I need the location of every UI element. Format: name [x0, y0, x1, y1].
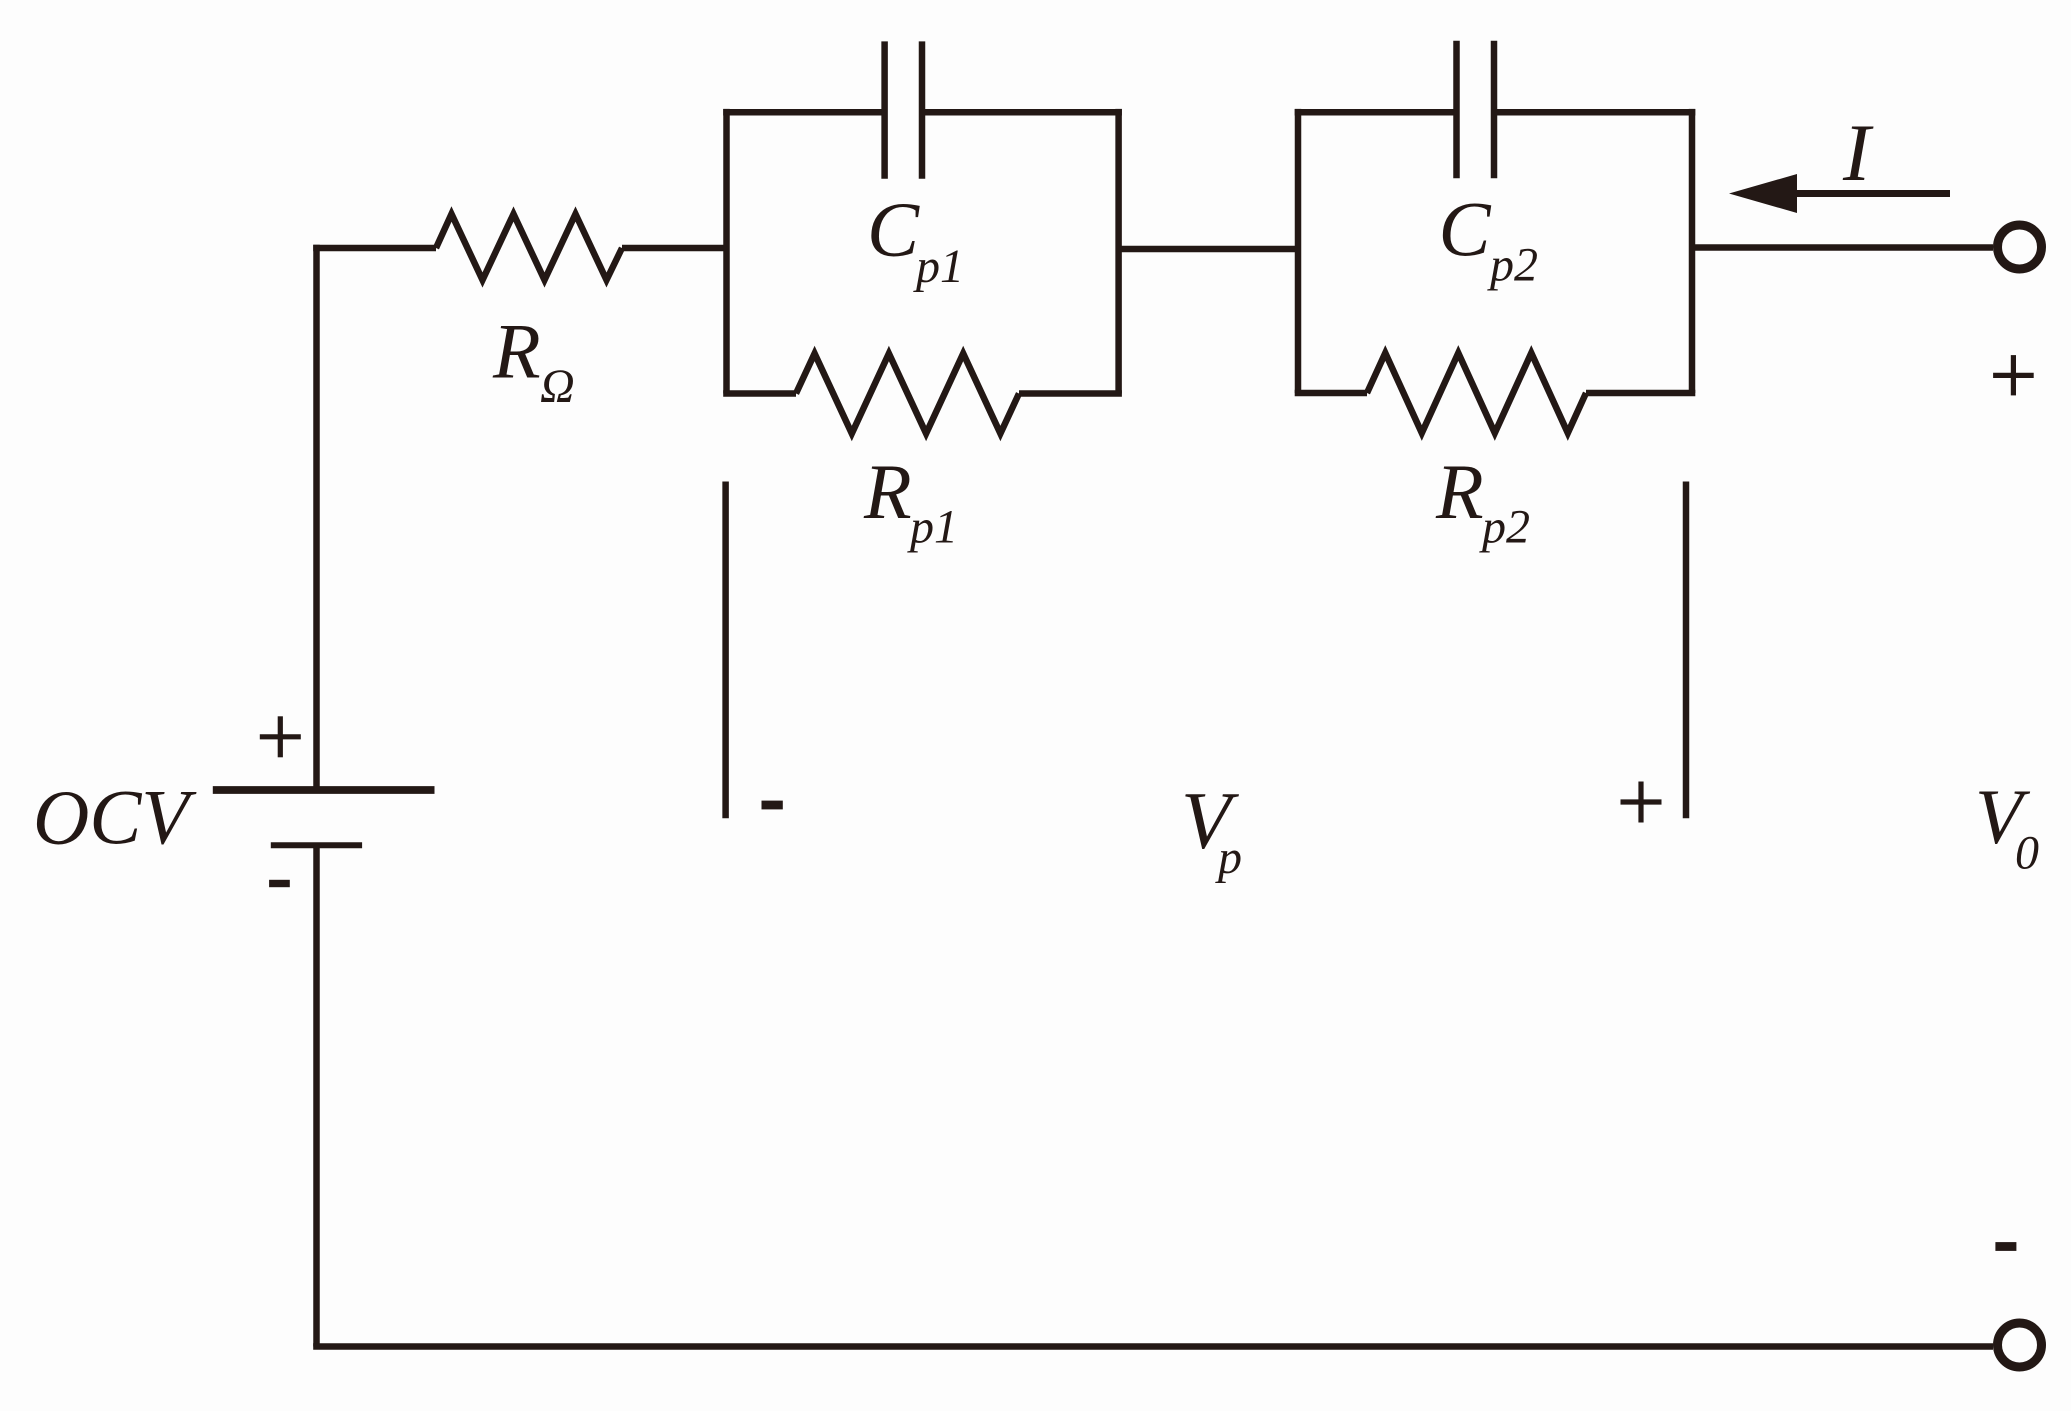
minus sign V_0 bottom right	[1995, 1242, 2016, 1251]
minus sign battery	[269, 880, 290, 887]
node box1 left edge	[723, 109, 730, 394]
plus sign V_p right bar	[1621, 799, 1662, 804]
svg-text:0: 0	[2015, 827, 2039, 880]
wire main left horizontal	[313, 245, 436, 252]
svg-text:OCV: OCV	[33, 774, 197, 861]
minus sign V_p left bar	[762, 801, 783, 810]
plus sign V_0 top right	[1993, 373, 2034, 378]
wire box1 top-left segment	[723, 109, 884, 116]
voltage bar V_p right	[1683, 482, 1690, 819]
svg-text:R: R	[1435, 448, 1484, 535]
svg-text:p1: p1	[913, 240, 964, 293]
resistor R_p1 zigzag	[796, 354, 1019, 434]
wire box1 top-right segment	[922, 109, 1122, 116]
wire box2 to terminal	[1692, 244, 1993, 251]
node box2 left edge	[1295, 109, 1302, 393]
wire bottom horizontal	[313, 1343, 1993, 1350]
wire box1 bottom-left segment	[723, 390, 796, 397]
current arrow I head	[1729, 174, 1797, 213]
wire R_Omega to box1	[622, 245, 727, 252]
current arrow I line	[1795, 190, 1950, 197]
wire left vertical upper	[313, 245, 320, 790]
wire box2 bottom-right segment	[1586, 390, 1695, 397]
terminal circle top right	[1998, 225, 2042, 269]
svg-text:C: C	[867, 186, 920, 273]
capacitor C_p2 right plate	[1491, 41, 1498, 178]
battery OCV bottom plate	[271, 842, 362, 848]
capacitor C_p1 right plate	[919, 41, 926, 178]
wire between box1 and box2	[1119, 246, 1298, 253]
wire left vertical lower	[313, 845, 320, 1346]
wire box2 top-right segment	[1494, 109, 1695, 116]
node box1 right edge	[1115, 109, 1122, 394]
svg-text:C: C	[1439, 186, 1492, 273]
svg-text:p: p	[1215, 831, 1242, 884]
wire box2 top-left segment	[1295, 109, 1457, 116]
battery OCV top plate	[213, 786, 435, 794]
capacitor C_p2 left plate	[1453, 41, 1460, 178]
svg-text:R: R	[492, 308, 541, 395]
node box2 right edge	[1689, 109, 1696, 393]
resistor R_Omega zigzag	[436, 214, 622, 280]
wire box2 bottom-left segment	[1295, 390, 1367, 397]
terminal circle bottom right	[1998, 1323, 2042, 1367]
resistor R_p2 zigzag	[1367, 353, 1586, 433]
svg-text:Ω: Ω	[540, 360, 575, 413]
svg-text:I: I	[1842, 107, 1874, 198]
svg-text:p1: p1	[907, 501, 958, 554]
svg-text:p2: p2	[1479, 501, 1530, 554]
voltage bar V_p left	[722, 482, 729, 819]
svg-text:p2: p2	[1487, 239, 1538, 292]
capacitor C_p1 left plate	[881, 41, 888, 178]
plus sign battery	[260, 734, 301, 739]
wire box1 bottom-right segment	[1019, 390, 1122, 397]
svg-text:R: R	[863, 448, 912, 535]
